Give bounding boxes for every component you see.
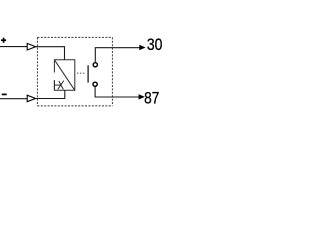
contact terminal bottom circle	[93, 82, 97, 86]
wire minus rail	[0, 98, 27, 100]
buffer arrow A2 (input triangle -)	[27, 95, 35, 102]
buffer arrow A1 (input triangle +)	[27, 43, 35, 50]
contact blade	[87, 65, 89, 82]
minus terminal label	[2, 93, 7, 95]
arrow to terminal 87	[139, 94, 145, 99]
arrow to terminal 30	[139, 45, 145, 50]
plus terminal label	[1, 38, 6, 43]
svg-text:30: 30	[147, 35, 163, 54]
coil suppression diode D1	[54, 80, 63, 90]
wire contact bottom to 87	[95, 87, 139, 97]
relay coil K1 (box with diagonal)	[54, 60, 74, 91]
wire from A2 to coil bottom	[36, 90, 65, 98]
wire plus rail	[0, 46, 27, 48]
wire contact top to 30	[95, 48, 139, 63]
relay enclosure dashed box	[37, 37, 112, 106]
contact terminal top circle	[93, 63, 97, 67]
wire from A1 to coil top	[36, 47, 65, 60]
mechanical link (dotted)	[77, 72, 85, 74]
svg-text:87: 87	[144, 89, 159, 108]
